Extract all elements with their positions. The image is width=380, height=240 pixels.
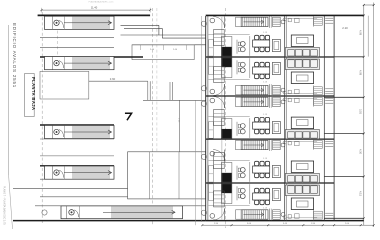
unit U2 sofa (285, 59, 319, 70)
building left wall (205, 16, 207, 221)
right border line (373, 3, 375, 228)
unit U5 wall closet (209, 184, 214, 201)
top right dim (364, 4, 374, 6)
unit U1 wardrobe (214, 30, 225, 46)
patio wall y176.5 (325, 176, 364, 178)
wall vertical x179.5 (179, 100, 181, 152)
unit U5 wardrobe (214, 191, 225, 207)
grid line C (152, 8, 154, 226)
stair S3 (45, 125, 115, 138)
unit U2 sink circles (236, 60, 238, 74)
unit U2 (201, 58, 333, 96)
svg-text:3.55: 3.55 (359, 109, 363, 115)
svg-text:11.40: 11.40 (91, 5, 98, 9)
unit U4 toilet (281, 143, 285, 147)
unit U4 tv cabinet (291, 161, 313, 173)
stair S4 (45, 166, 115, 179)
unit U5 porch columns (210, 214, 215, 219)
party wall y57 (206, 56, 334, 58)
unit U3 sink circles (236, 122, 238, 136)
unit U1 sideboard (272, 40, 280, 52)
unit U4 wardrobe (214, 153, 225, 169)
unit U3 stove (221, 129, 231, 138)
wall step line L2 (121, 34, 206, 36)
unit U1 patio steps (325, 17, 333, 19)
bottom heavy wall left part (13, 220, 206, 222)
top dimension line (42, 9, 151, 11)
unit U5 dining table (255, 188, 259, 193)
unit U1 kitchen counter (221, 37, 232, 57)
unit U5 bath ladder (273, 210, 281, 219)
unit U3 bath ladder (273, 97, 281, 106)
svg-text:4.08: 4.08 (359, 30, 363, 36)
unit U3 sofa (285, 130, 319, 139)
room divider y37.7 (40, 37, 114, 39)
unit U4 dining table (255, 173, 259, 178)
unit U3 toilet (281, 100, 285, 104)
unit U1 sink circles (236, 40, 238, 54)
unit U3 wall closet (209, 122, 214, 139)
unit U2 bath ladder (273, 85, 281, 94)
wall step line L3 (132, 44, 206, 46)
unit U5 toilet (281, 213, 285, 217)
corridor verticals x170 (169, 82, 171, 100)
bottom dim line (202, 224, 373, 226)
stair S1 (45, 16, 115, 29)
wall step line L1 (121, 24, 159, 26)
room K internal wall 1 (149, 152, 151, 199)
page edge line (8, 25, 10, 175)
unit U2 stove (221, 58, 231, 67)
svg-text:2.10: 2.10 (342, 26, 348, 30)
outer walkway line (201, 16, 203, 222)
wall x284.7 (284, 16, 286, 221)
unit U5 dining divider (209, 205, 250, 207)
unit U2 toilet (281, 88, 285, 92)
wall line y196.8 (40, 196, 128, 198)
unit U4 bathroom (286, 141, 317, 143)
unit U5 (201, 184, 333, 221)
unit U4 porch columns (210, 151, 215, 156)
stair S4 bottom line (40, 178, 114, 180)
unit U3 dining table (255, 129, 259, 134)
unit U4 (201, 139, 333, 183)
unit U2 tv cabinet (291, 72, 313, 84)
unit U1 corridor wall (221, 17, 223, 56)
unit U5 stove (221, 184, 231, 193)
unit U2 bathroom (286, 92, 317, 94)
patio wall y97.3 (325, 96, 364, 98)
svg-text:PLANO 7 - PLANTA BAJA ESC 1:75: PLANO 7 - PLANTA BAJA ESC 1:75 (2, 186, 5, 225)
unit U1 wall closet (209, 40, 214, 57)
unit U2 bath wall (269, 84, 271, 96)
stair S5 (61, 206, 183, 219)
svg-text:4.08: 4.08 (359, 70, 363, 76)
unit U3 porch columns (210, 98, 215, 103)
unit U4 bath wall (269, 139, 271, 151)
unit U2 wall kitchen/dining (249, 58, 251, 78)
unit U3 wardrobe (214, 110, 225, 126)
wall line y188.7 (13, 188, 128, 190)
unit U1 bathroom (286, 18, 317, 20)
unit U3 sideboard (272, 122, 280, 134)
unit U2 patio stair rungs (314, 87, 323, 95)
svg-text:4.30: 4.30 (359, 149, 363, 155)
room R1 (40, 71, 89, 99)
unit U2 dining table (255, 62, 259, 67)
unit U3 stair (241, 97, 268, 106)
wall line y79.8 (89, 80, 148, 82)
patio wall y218.3 (325, 217, 364, 219)
unit U2 wardrobe (214, 67, 225, 83)
grid line B (57, 15, 59, 57)
unit U4 patio steps (325, 140, 333, 142)
dim line right (363, 5, 365, 225)
corridor verticals x148 (147, 81, 149, 100)
room divider y47.3 (40, 46, 114, 48)
unit U4 entry door (213, 150, 225, 162)
svg-text:4.15: 4.15 (359, 191, 363, 197)
unit U5 tv cabinet (291, 198, 313, 210)
unit U4 wall kitchen/dining (249, 162, 251, 182)
unit U5 patio steps (325, 217, 333, 219)
unit U3 tv cabinet (291, 117, 313, 129)
label 7 (126, 113, 132, 119)
unit U1 dining table (255, 47, 259, 52)
unit U1 sofa (285, 48, 319, 57)
unit U3 wall kitchen/dining (249, 118, 251, 138)
unit U2 dining divider (209, 79, 250, 81)
unit U5 stair (241, 210, 268, 219)
unit U1 bath ladder (273, 17, 281, 26)
wall line y155.9 (40, 155, 114, 157)
unit U4 stair (241, 140, 268, 149)
unit U4 dining divider (209, 159, 250, 161)
party wall y96 (206, 95, 334, 97)
unit U3 dining divider (209, 116, 250, 118)
unit U2 patio steps (325, 93, 333, 95)
unit U3 corridor wall (221, 97, 223, 138)
unit U2 corridor wall (221, 58, 223, 95)
porch circle S5 (42, 210, 47, 215)
room K internal wall 2 (178, 152, 180, 199)
unit U2 entry door (213, 84, 225, 96)
party wall y57 heavy (40, 56, 143, 58)
stair S2 (45, 57, 115, 70)
unit U1 toilet (281, 20, 285, 24)
unit U5 patio stair rungs (314, 211, 323, 219)
top wall heavy (206, 14, 364, 16)
unit U1 wall kitchen/dining (249, 36, 251, 56)
grid line A (41, 12, 43, 224)
svg-text:EDIFICIO AVALOS 2551: EDIFICIO AVALOS 2551 (12, 23, 17, 88)
unit U1 tv cabinet (291, 35, 313, 47)
unit U5 sofa (285, 185, 319, 196)
svg-text:PLANTA BAJA NIVEL +0.15: PLANTA BAJA NIVEL +0.15 (89, 1, 115, 4)
wall line y205.8 (35, 205, 206, 207)
unit U4 sideboard (272, 166, 280, 178)
unit U5 bath wall (269, 209, 271, 221)
bottom wall heavy (206, 220, 364, 222)
wall step line L2b (162, 37, 205, 39)
unit U1 dining divider (209, 33, 250, 35)
unit U5 kitchen counter (221, 184, 232, 204)
unit U5 wall kitchen/dining (249, 184, 251, 204)
unit U1 (201, 16, 333, 57)
unit U2 porch columns (210, 89, 215, 94)
patio wall y56.8 (325, 56, 364, 58)
wall x324.3 (323, 16, 325, 221)
room R2 (132, 45, 194, 60)
party wall y125 heavy (40, 124, 114, 126)
grid line D (156, 8, 158, 151)
patio inner line (367, 16, 369, 57)
unit U4 kitchen counter (221, 163, 232, 183)
unit U3 patio steps (325, 97, 333, 99)
unit U4 wall closet (209, 166, 214, 183)
unit U1 patio stair rungs (314, 17, 323, 25)
unit U1 stair (241, 17, 268, 26)
party wall y183 (206, 182, 334, 184)
title block PLANTA BAJA (25, 74, 35, 117)
unit U1 entry door (213, 17, 225, 29)
party wall y139 (206, 138, 334, 140)
wall line y100.3 (143, 99, 206, 101)
party wall y165.8 heavy (40, 165, 114, 167)
patio wall y133.5 (325, 133, 364, 135)
unit U4 corridor wall (221, 140, 223, 182)
unit U4 sofa (285, 174, 319, 183)
unit U5 sink circles (236, 186, 238, 200)
lane line x195.3 (194, 100, 196, 225)
grid line E (225, 8, 227, 228)
unit U2 sideboard (272, 63, 280, 75)
wall step line L1b (124, 27, 162, 29)
unit U3 entry door (213, 97, 225, 109)
unit U3 (201, 96, 333, 139)
stair S3 bottom line (40, 138, 114, 140)
big room K (128, 152, 206, 199)
svg-text:3.60: 3.60 (110, 77, 116, 81)
unit U2 kitchen counter (221, 58, 232, 78)
wall x334.1 (333, 15, 335, 220)
unit U2 stair (241, 85, 268, 94)
unit U4 patio stair rungs (314, 141, 323, 149)
wall top heavy (38, 14, 151, 16)
unit U4 bath ladder (273, 140, 281, 149)
unit U3 kitchen counter (221, 119, 232, 139)
svg-text:PLANTA BAJA: PLANTA BAJA (31, 77, 36, 110)
unit U3 bath wall (269, 96, 271, 108)
unit U1 stove (221, 47, 231, 56)
unit U5 corridor wall (221, 184, 223, 219)
unit U4 stove (221, 173, 231, 182)
unit U3 bathroom (286, 98, 317, 100)
unit U1 porch columns (210, 18, 215, 23)
unit U3 patio stair rungs (314, 97, 323, 105)
unit U2 wall closet (209, 58, 214, 75)
unit U1 bath wall (269, 16, 271, 28)
unit U4 sink circles (236, 166, 238, 180)
unit U5 bathroom (286, 217, 317, 219)
unit U5 sideboard (272, 189, 280, 201)
unit U5 entry door (213, 208, 225, 220)
